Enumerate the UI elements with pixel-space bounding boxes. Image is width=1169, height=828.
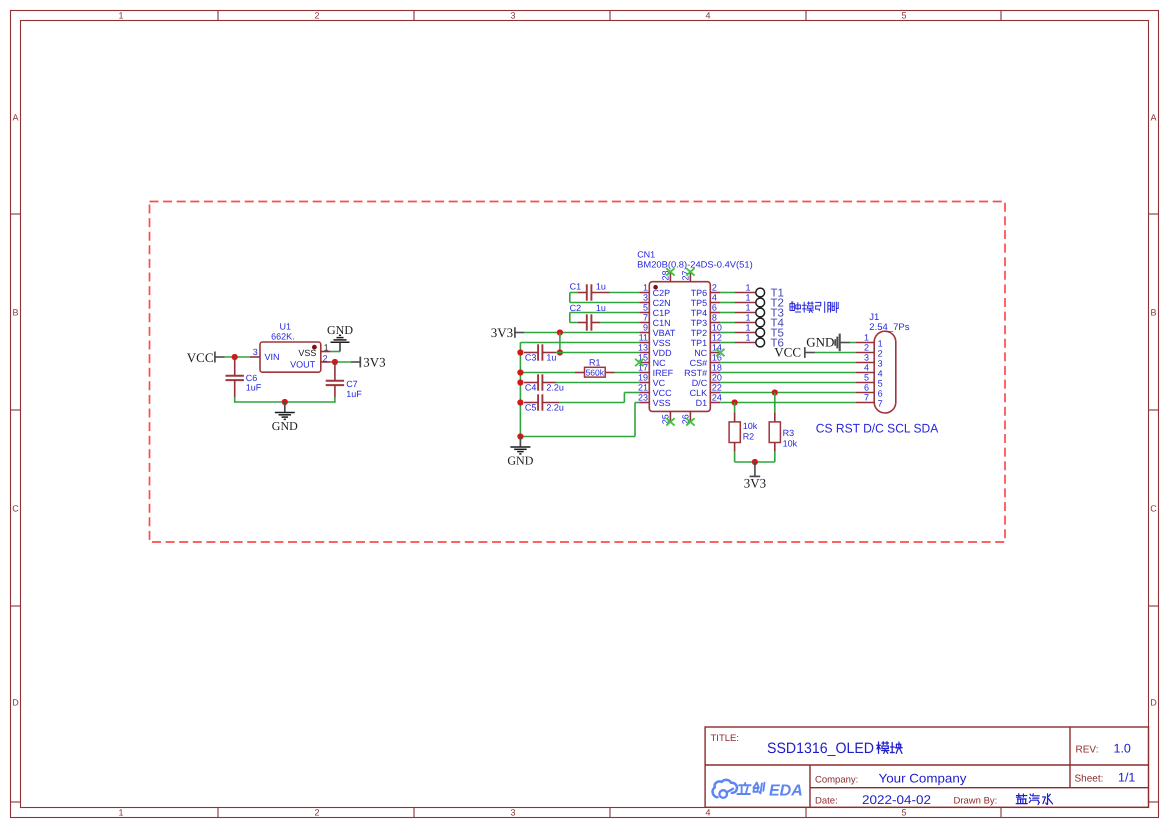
wire VDD row to CN1 pin 13 [560, 352, 639, 354]
svg-text:1: 1 [745, 333, 750, 343]
junction CLK/R3 [772, 389, 778, 395]
svg-text:2022-04-02: 2022-04-02 [862, 793, 931, 807]
svg-text:EDA: EDA [769, 783, 803, 800]
junction 3V3 pullup [752, 459, 758, 465]
svg-text:16: 16 [712, 353, 722, 363]
wire CN1 pin 24 (D1) to J1 pin 7 [720, 402, 856, 404]
CN1 pin 14 (NC) [694, 343, 722, 358]
wire CN1 pin 16 (CS#) to J1 pin 3 [720, 362, 856, 364]
svg-text:4: 4 [712, 293, 717, 303]
U1 pin 2 [321, 361, 331, 363]
svg-text:3: 3 [643, 293, 648, 303]
svg-text:C7: C7 [346, 379, 358, 389]
svg-text:3: 3 [253, 347, 258, 357]
svg-text:3V3: 3V3 [491, 325, 513, 340]
svg-text:NC: NC [694, 348, 707, 358]
wire CN1 pin 10 to test point T5 [720, 332, 735, 334]
junction rail/C4 [517, 379, 523, 385]
net flag VCC [187, 350, 225, 365]
svg-text:5: 5 [864, 372, 869, 382]
J1 pin 7 [856, 392, 883, 408]
CN1 pin 22 (CLK) [690, 383, 722, 398]
wire CN1 pin 22 (CLK) to J1 pin 6 [720, 392, 856, 394]
wire R2/R3 bottoms to 3V3 [734, 452, 736, 462]
svg-text:1.0: 1.0 [1114, 742, 1131, 756]
capacitor C3 [524, 344, 556, 362]
svg-text:IREF: IREF [653, 368, 674, 378]
svg-text:VOUT: VOUT [290, 359, 316, 369]
CN1 pin 12 (TP1) [691, 333, 722, 348]
wire VCC to U1 pin 3 [225, 356, 251, 358]
svg-text:RST#: RST# [684, 368, 707, 378]
CN1 pin 5 (C1P) [639, 303, 670, 318]
wire R1 to CN1 pin 17 (IREF) [615, 372, 640, 374]
svg-text:3V3: 3V3 [744, 476, 766, 491]
capacitor C5 [524, 394, 564, 412]
svg-text:5: 5 [878, 379, 883, 389]
svg-text:C1P: C1P [653, 308, 671, 318]
wire CN1 pin 12 to test point T6 [720, 342, 735, 344]
svg-text:8: 8 [712, 313, 717, 323]
svg-text:A: A [12, 113, 18, 123]
CN1 pin 8 (TP3) [691, 313, 721, 328]
svg-text:GND: GND [327, 323, 353, 337]
svg-text:C: C [12, 504, 19, 514]
svg-text:Sheet:: Sheet: [1075, 774, 1104, 785]
CN1 pin 27 [681, 268, 695, 281]
svg-text:C4: C4 [525, 382, 537, 392]
svg-text:B: B [1150, 308, 1156, 318]
svg-text:1: 1 [118, 10, 123, 20]
U1 pin 3 [250, 356, 260, 358]
svg-text:4: 4 [864, 362, 869, 372]
resistor R3 10k [769, 393, 797, 452]
svg-text:TP2: TP2 [691, 328, 708, 338]
svg-text:5: 5 [901, 807, 906, 817]
svg-text:VSS: VSS [653, 398, 671, 408]
wire C7 to ground rail [334, 397, 336, 403]
J1 pin 2 [856, 342, 883, 358]
svg-text:R1: R1 [589, 357, 601, 367]
EasyEDA logo [713, 780, 803, 800]
junction VCC/C6 [232, 354, 238, 360]
J1 pin 6 [856, 382, 883, 398]
svg-text:2: 2 [314, 807, 319, 817]
junction rail/R1 [517, 369, 523, 375]
CN1 pin 28 [661, 268, 675, 281]
net flag VCC (J1 pin 2) [774, 345, 815, 360]
title block [705, 727, 1148, 807]
wire CN1 pin 6 to test point T3 [720, 312, 735, 314]
svg-text:TP1: TP1 [691, 338, 708, 348]
svg-text:1: 1 [643, 283, 648, 293]
svg-text:Drawn By:: Drawn By: [954, 796, 998, 807]
svg-text:Your Company: Your Company [879, 772, 968, 786]
wire ground rail (vertical) [519, 343, 521, 437]
junction rail/C5 [517, 399, 523, 405]
wire 3V3 branch down to VDD row [559, 333, 561, 353]
CN1 pin 20 (D/C) [692, 373, 722, 388]
svg-text:24: 24 [712, 393, 722, 403]
svg-text:662K.: 662K. [271, 331, 295, 341]
module boundary (red dashed) [150, 202, 1006, 543]
junction 3V3/VDD branch [557, 329, 563, 335]
svg-text:2: 2 [878, 349, 883, 359]
wire CN1 pin 4 to test point T2 [720, 302, 735, 304]
test point T5 [735, 323, 784, 340]
svg-text:VBAT: VBAT [653, 328, 676, 338]
J1 pin 3 [856, 352, 883, 368]
U1 pin 1 [321, 351, 331, 353]
resistor R2 10k [729, 403, 758, 452]
J1 pin 1 [856, 332, 883, 348]
wire rail top to CN1 pin 11 (VSS) [520, 342, 639, 344]
svg-text:2: 2 [314, 10, 319, 20]
svg-text:19: 19 [638, 373, 648, 383]
test point T1 [735, 283, 784, 300]
svg-text:1: 1 [745, 313, 750, 323]
junction rail/GND [517, 433, 523, 439]
test point T2 [735, 293, 784, 310]
svg-text:7: 7 [878, 399, 883, 409]
svg-text:B: B [12, 308, 18, 318]
ground (left rail) [507, 437, 533, 468]
svg-text:GND: GND [806, 335, 834, 350]
wire bottom ground rail (regulator) [235, 401, 335, 403]
svg-text:TP6: TP6 [691, 288, 708, 298]
svg-text:D1: D1 [696, 398, 708, 408]
svg-text:VDD: VDD [653, 348, 673, 358]
svg-text:10k: 10k [743, 421, 758, 431]
svg-text:Date:: Date: [815, 796, 838, 807]
svg-text:TP5: TP5 [691, 298, 708, 308]
svg-text:C1: C1 [570, 282, 582, 292]
wire C4 to CN1 pin 19 (VC) [556, 382, 639, 384]
svg-text:R3: R3 [783, 428, 795, 438]
ground (regulator bottom) [272, 402, 298, 433]
CN1 pin 2 (TP6) [691, 283, 721, 298]
CN1 pin 10 (TP2) [691, 323, 722, 338]
U1 pin-1 marker [312, 345, 317, 350]
wire C2 to CN1 pin 7 (C1N) [600, 322, 639, 324]
wire CN1 pin 2 to test point T1 [720, 292, 735, 294]
no-connect X on CN1 pin 14 [716, 349, 724, 356]
svg-text:2: 2 [864, 342, 869, 352]
svg-text:1: 1 [864, 332, 869, 342]
svg-text:1u: 1u [546, 352, 556, 362]
svg-text:3: 3 [510, 10, 515, 20]
wire CN1 pin 8 to test point T4 [720, 322, 735, 324]
wire C5 to CN1 pin 21 (VCC) [559, 402, 624, 404]
svg-text:17: 17 [638, 363, 648, 373]
ground flag (J1 pin 1) [806, 334, 850, 352]
svg-text:VSS: VSS [653, 338, 671, 348]
svg-text:R2: R2 [743, 431, 755, 441]
svg-text:TP3: TP3 [691, 318, 708, 328]
CN1 pin 17 (IREF) [638, 363, 674, 378]
svg-text:Company:: Company: [815, 774, 858, 785]
svg-text:C1N: C1N [653, 318, 671, 328]
capacitor C7 [326, 362, 363, 399]
svg-text:23: 23 [638, 393, 648, 403]
wire C6 to ground rail [234, 397, 236, 403]
svg-text:1: 1 [745, 303, 750, 313]
CN1 pin 1 (C2P) [639, 283, 670, 298]
J1 pin 4 [856, 362, 883, 378]
ground (U1 pin 1) [327, 323, 353, 351]
svg-text:1: 1 [745, 293, 750, 303]
connector CN1 BM20B(0.8)-24DS-0.4V(51) [635, 250, 753, 426]
CN1 pin 9 (VBAT) [639, 323, 676, 338]
text label 触摸引脚 [790, 302, 801, 312]
wire C2 to CN1 pin 5 (C1P) [570, 322, 578, 324]
svg-text:C2N: C2N [653, 298, 671, 308]
svg-text:C2: C2 [570, 303, 582, 313]
CN1 pin 23 (VSS) [638, 393, 671, 408]
svg-text:D: D [12, 698, 19, 708]
svg-text:GND: GND [272, 419, 298, 433]
svg-text:TITLE:: TITLE: [711, 733, 740, 744]
svg-text:10k: 10k [783, 438, 798, 448]
svg-text:5: 5 [643, 303, 648, 313]
op-amp U1 (662K regulator) [250, 321, 331, 372]
svg-text:7: 7 [864, 392, 869, 402]
svg-text:VCC: VCC [774, 345, 801, 360]
svg-text:C6: C6 [246, 373, 258, 383]
wire VCC flag to J1 pin 2 [815, 352, 856, 354]
svg-text:3V3: 3V3 [363, 354, 385, 369]
net flag 3V3 (pullups) [744, 462, 766, 491]
wire CN1 pin 23 (VSS) to ground rail [635, 402, 639, 404]
svg-text:1: 1 [745, 283, 750, 293]
svg-text:2.54_7Ps: 2.54_7Ps [869, 322, 909, 333]
CN1 pin 18 (RST#) [684, 363, 722, 378]
svg-text:13: 13 [638, 343, 648, 353]
svg-text:GND: GND [507, 454, 533, 468]
svg-text:VC: VC [653, 378, 666, 388]
capacitor C4 [524, 374, 564, 392]
svg-text:2.2u: 2.2u [546, 402, 564, 412]
svg-text:3: 3 [510, 807, 515, 817]
svg-text:D: D [1150, 698, 1157, 708]
CN1 pin 25 [661, 411, 675, 425]
svg-text:3: 3 [864, 352, 869, 362]
J1 pin 5 [856, 372, 883, 388]
CN1 pin 15 (NC) [638, 353, 666, 368]
svg-text:14: 14 [712, 343, 722, 353]
wire C3 to junction [556, 352, 560, 354]
svg-text:2.2u: 2.2u [546, 382, 564, 392]
svg-text:2: 2 [323, 354, 328, 364]
svg-text:11: 11 [639, 333, 648, 343]
wire CN1 pin 20 (D/C) to J1 pin 5 [720, 382, 856, 384]
svg-text:560k: 560k [586, 368, 605, 378]
svg-text:1: 1 [745, 323, 750, 333]
svg-text:1: 1 [878, 339, 883, 349]
svg-text:D/C: D/C [692, 378, 708, 388]
resistor R1 560k [575, 357, 615, 377]
svg-text:1/1: 1/1 [1118, 771, 1135, 785]
CN1 pin 26 [681, 411, 695, 425]
no-connect X on CN1 pin 15 [635, 359, 643, 366]
CN1 pin 16 (CS#) [690, 353, 722, 368]
svg-text:C3: C3 [525, 352, 537, 362]
wire CN1 pin 18 (RST#) to J1 pin 4 [720, 372, 856, 374]
svg-text:4: 4 [705, 10, 710, 20]
svg-text:U1: U1 [280, 321, 292, 331]
svg-text:21: 21 [638, 383, 648, 393]
svg-text:C5: C5 [525, 402, 537, 412]
wire GND flag to J1 pin 1 [850, 342, 856, 344]
svg-text:1u: 1u [596, 303, 606, 313]
CN1 pin 4 (TP5) [691, 293, 721, 308]
svg-text:18: 18 [712, 363, 722, 373]
svg-text:1: 1 [118, 807, 123, 817]
test point T6 [735, 333, 784, 350]
test point T3 [735, 303, 784, 320]
capacitor C6 [226, 357, 262, 398]
svg-text:CLK: CLK [690, 388, 708, 398]
junction bottom GND [282, 399, 288, 405]
svg-text:1uF: 1uF [346, 389, 362, 399]
svg-text:CN1: CN1 [637, 250, 655, 260]
test point T4 [735, 313, 785, 330]
capacitor C2 [570, 303, 606, 331]
CN1 pin 19 (VC) [638, 373, 666, 388]
wire U1 pin2 to 3V3 [331, 361, 351, 363]
wire 3V3 to CN1 pin 9 (VBAT) [524, 332, 639, 334]
svg-text:VCC: VCC [187, 350, 214, 365]
CN1 pin 21 (VCC) [638, 383, 672, 398]
svg-text:A: A [1150, 113, 1156, 123]
svg-text:VCC: VCC [653, 388, 673, 398]
svg-text:20: 20 [712, 373, 722, 383]
svg-text:2: 2 [712, 283, 717, 293]
svg-text:10: 10 [712, 323, 722, 333]
svg-text:CS#: CS# [690, 358, 708, 368]
CN1 pin 7 (C1N) [639, 313, 670, 328]
wire C1 to CN1 pin 1 (C2P) [610, 292, 639, 294]
CN1 pin-1 marker [653, 285, 658, 290]
junction rail/C3 [517, 349, 523, 355]
CN1 pin 11 (VSS) [639, 333, 671, 348]
svg-text:3: 3 [878, 359, 883, 369]
junction D1/R2 [732, 399, 738, 405]
svg-text:1u: 1u [596, 282, 606, 292]
svg-text:VSS: VSS [298, 348, 316, 358]
CN1 pin 3 (C2N) [639, 293, 670, 308]
capacitor C1 [570, 282, 610, 301]
svg-text:C: C [1150, 504, 1157, 514]
svg-text:VIN: VIN [265, 352, 280, 362]
svg-text:1: 1 [324, 343, 329, 353]
svg-text:REV:: REV: [1076, 745, 1099, 756]
svg-text:9: 9 [643, 323, 648, 333]
wire C1 to CN1 pin 3 (C2N) [570, 292, 578, 294]
svg-text:C2P: C2P [653, 288, 671, 298]
svg-text:6: 6 [712, 303, 717, 313]
svg-text:5: 5 [901, 10, 906, 20]
svg-text:7: 7 [643, 313, 648, 323]
junction C3/VDD [557, 349, 563, 355]
svg-text:TP4: TP4 [691, 308, 708, 318]
svg-text:CS RST D/C SCL SDA: CS RST D/C SCL SDA [816, 422, 939, 436]
net flag 3V3 [360, 354, 385, 369]
wire U1 pin1 to GND [331, 351, 340, 353]
svg-text:12: 12 [712, 333, 722, 343]
net flag 3V3 (CN1 side) [491, 325, 524, 340]
connector J1 2.54_7Ps [856, 312, 910, 413]
junction VOUT/C7 [332, 359, 338, 365]
svg-text:4: 4 [705, 807, 710, 817]
svg-text:BM20B(0.8)-24DS-0.4V(51): BM20B(0.8)-24DS-0.4V(51) [637, 259, 753, 269]
svg-text:4: 4 [878, 369, 883, 379]
CN1 pin 13 (VDD) [638, 343, 672, 358]
svg-text:NC: NC [653, 358, 666, 368]
wire rail to R1 [520, 372, 575, 374]
CN1 pin 24 (D1) [696, 393, 722, 408]
svg-text:SSD1316_OLED: SSD1316_OLED [767, 740, 874, 757]
svg-text:22: 22 [712, 383, 722, 393]
svg-text:6: 6 [864, 382, 869, 392]
svg-text:1uF: 1uF [246, 383, 262, 393]
svg-text:6: 6 [878, 389, 883, 399]
CN1 pin 6 (TP4) [691, 303, 721, 318]
